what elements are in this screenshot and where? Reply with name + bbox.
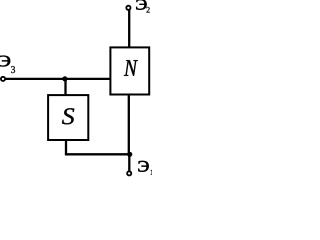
node: junction of left wire with S branch	[62, 76, 67, 81]
label Э2	[136, 0, 149, 13]
label Э1	[138, 161, 153, 175]
terminal Э1 (bottom right, open circle)	[127, 171, 131, 175]
label S	[62, 108, 74, 124]
block S (rectangle)	[48, 95, 88, 140]
node: junction of N branch with bottom wire	[127, 152, 132, 157]
label Э3	[0, 56, 15, 73]
wire: S box bottom down	[65, 140, 67, 154]
wire: N box bottom down to junction	[128, 95, 130, 154]
wire: top terminal to N box top	[128, 10, 130, 48]
wire: bottom horizontal to junction	[65, 153, 130, 155]
block N (rectangle)	[110, 47, 149, 94]
terminal Э3 (left, open circle)	[1, 77, 5, 81]
label N	[124, 60, 138, 76]
wire: junction to bottom terminal	[128, 154, 130, 171]
wire: junction down to S box top	[64, 79, 66, 96]
terminal Э2 (top right, open circle)	[126, 6, 130, 10]
wire: left terminal to N box left side	[5, 78, 111, 80]
